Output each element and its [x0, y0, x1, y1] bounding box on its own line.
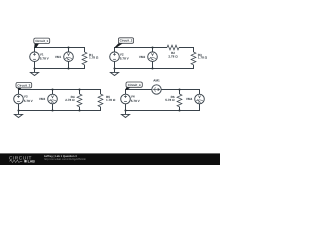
resistor R5 [98, 94, 103, 107]
resistor R2 [167, 45, 179, 50]
resistor R4 [77, 94, 82, 107]
svg-text:5.78 V: 5.78 V [40, 57, 50, 61]
node label Circuit_3 [16, 83, 32, 90]
svg-text:1.78 Ω: 1.78 Ω [106, 98, 116, 102]
wire [115, 48, 168, 52]
junction [67, 67, 69, 69]
junction [78, 88, 80, 90]
footer bar [0, 153, 220, 165]
voltage source V2 [110, 52, 130, 62]
ground [110, 69, 118, 76]
junction [17, 109, 19, 111]
svg-text:5.78 V: 5.78 V [24, 99, 34, 103]
junction [178, 88, 180, 90]
svg-text:2.78 Ω: 2.78 Ω [65, 98, 75, 102]
resistor R6 [177, 94, 182, 107]
wire [35, 62, 85, 69]
svg-text:5.78 V: 5.78 V [131, 99, 141, 103]
ammeter AM1 [152, 79, 161, 95]
CircuitLab logo [9, 155, 35, 163]
ground [30, 69, 38, 76]
junction [151, 46, 153, 48]
wire [161, 90, 199, 95]
junction [151, 67, 153, 69]
junction [113, 67, 115, 69]
svg-text:Circuit_2: Circuit_2 [120, 39, 133, 43]
node label Circuit_1 [34, 38, 50, 48]
ground [121, 111, 129, 118]
voltage source V4 [121, 94, 141, 104]
wire [68, 48, 70, 69]
svg-text:VM1: VM1 [55, 55, 62, 59]
svg-text:Circuit_3: Circuit_3 [17, 83, 30, 87]
svg-text:VM4: VM4 [186, 97, 193, 101]
voltmeter VM4 [186, 94, 204, 104]
wire [115, 62, 194, 69]
svg-text:AM1: AM1 [153, 79, 160, 83]
wire [152, 48, 154, 69]
junction [178, 109, 180, 111]
node label Circuit_2 [114, 38, 133, 48]
voltmeter VM2 [139, 52, 157, 62]
wire [179, 48, 194, 53]
svg-text:5.78 Ω: 5.78 Ω [165, 98, 175, 102]
wire [179, 90, 181, 111]
wire [19, 90, 101, 95]
ground [14, 111, 22, 118]
voltage source V1 [30, 52, 50, 62]
svg-text:1.78 Ω: 1.78 Ω [198, 56, 208, 60]
svg-text:VM2: VM2 [139, 55, 146, 59]
svg-text:1.78 Ω: 1.78 Ω [89, 56, 99, 60]
resistor R3 [191, 52, 196, 65]
wire [79, 90, 81, 111]
junction [51, 109, 53, 111]
svg-text:2.78 Ω: 2.78 Ω [168, 55, 178, 59]
junction [124, 109, 126, 111]
svg-text:VM3: VM3 [39, 97, 46, 101]
wire [126, 90, 152, 95]
voltage source V3 [14, 94, 34, 104]
voltmeter VM1 [55, 52, 73, 62]
junction [33, 67, 35, 69]
junction [51, 88, 53, 90]
svg-text:5.78 V: 5.78 V [120, 57, 130, 61]
svg-text:http://circuitlab.com/c/6z9gzM: http://circuitlab.com/c/6z9gzM5G6kr [44, 158, 86, 161]
junction [67, 46, 69, 48]
voltmeter VM3 [39, 94, 57, 104]
wire [126, 104, 200, 111]
node label Circuit_4 [125, 82, 142, 90]
resistor R1 [82, 52, 87, 65]
svg-text:Circuit_1: Circuit_1 [35, 39, 48, 43]
wire [52, 90, 54, 111]
svg-text:Circuit_4: Circuit_4 [128, 83, 141, 87]
wire [35, 48, 85, 53]
svg-text:LAB: LAB [28, 160, 36, 164]
junction [78, 109, 80, 111]
wire [19, 104, 101, 111]
